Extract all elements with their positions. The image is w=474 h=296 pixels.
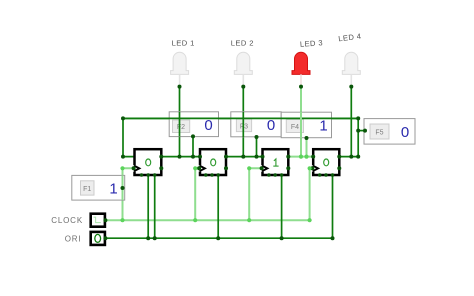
probe box F2 <box>169 112 218 137</box>
wire ORI rail (dark green, logic 0) <box>105 175 332 238</box>
svg-text:0: 0 <box>401 124 409 141</box>
node ORI rail junction FF2 <box>216 236 220 240</box>
redraw LED stems over boxes <box>179 112 181 137</box>
node FF2 en pin <box>204 173 208 177</box>
node LED3 wire top <box>299 85 303 89</box>
node F4 probe pin <box>305 136 309 140</box>
node FF4 en pin <box>318 173 322 177</box>
node FF3 reset pin <box>273 173 277 177</box>
wire stub to F5 probe <box>358 130 365 132</box>
node F5 stub corner <box>356 129 360 133</box>
flip-flop U2 (T flip-flop) <box>199 149 226 175</box>
svg-text:1: 1 <box>109 180 117 197</box>
wire FF1 preset to ORI rail <box>154 175 156 238</box>
LED 2 (off) <box>234 52 252 85</box>
svg-text:F1: F1 <box>83 186 91 193</box>
LED 3 (on, red) <box>292 52 310 85</box>
node FF2.T pin <box>198 155 202 159</box>
wire clock tap to FF3 <box>249 168 262 220</box>
node FF3 en pin <box>267 173 271 177</box>
svg-text:F4: F4 <box>291 124 299 131</box>
svg-text:CLOCK: CLOCK <box>51 216 83 225</box>
wire LED1 stem <box>179 87 181 157</box>
node clock tap FF1 <box>120 218 124 222</box>
redraw feedback wire over boxes <box>123 117 358 119</box>
node clock tap FF4 corner <box>308 218 312 222</box>
node F1 probe pin <box>121 186 125 190</box>
node F2 probe pin <box>191 134 195 138</box>
node clock tap FF3 <box>247 218 251 222</box>
wire stage1 FF1.Q to FF2.T <box>161 156 200 158</box>
node ORI rail junction FF3 <box>280 236 284 240</box>
node clock corner FF4 <box>308 166 312 170</box>
wire stage2 FF2.Q to FF3.T <box>226 156 263 158</box>
node F3 probe pin <box>255 135 259 139</box>
node FF4.Q pin <box>337 155 341 159</box>
node FF1.T junction <box>121 155 125 159</box>
node F4 stub junction <box>304 155 308 159</box>
node FF4 reset pin <box>324 173 328 177</box>
node FF4 clk pin <box>310 166 314 170</box>
redraw F1 tap over box <box>122 175 124 200</box>
junction dots light green <box>120 155 311 223</box>
node LED1 stem junction <box>178 155 182 159</box>
flip-flop U1 (T flip-flop) <box>133 149 161 175</box>
node F3 stub junction <box>255 155 259 159</box>
node FF2 Qbar pin <box>224 166 228 170</box>
node FF1 clk pin <box>132 166 136 170</box>
node feedback top-left corner <box>121 116 125 120</box>
node FF3.Q pin <box>286 155 290 159</box>
node FF4.T pin <box>311 155 315 159</box>
wire LED3 stem (light green) <box>300 87 302 157</box>
node ORI rail junction FF1 preset <box>153 236 157 240</box>
svg-text:LED 3: LED 3 <box>300 38 324 49</box>
wire feedback FF4.Q to FF1.T <box>123 118 358 156</box>
wire stage3 FF3.Q to FF4.T (light green, logic 1) <box>288 156 313 158</box>
node F2 stub junction <box>191 155 195 159</box>
node CLOCK output pin <box>103 218 107 222</box>
node FF3 Qbar pin <box>286 166 290 170</box>
node LED3 stem junction <box>299 155 303 159</box>
wire FF3 preset to ORI rail <box>281 175 283 238</box>
node FF4 Qbar pin <box>337 166 341 170</box>
svg-text:LED 2: LED 2 <box>231 39 254 48</box>
node clock corner FF1 <box>120 166 124 170</box>
svg-text:0: 0 <box>204 117 212 134</box>
node stage4 corner <box>356 155 360 159</box>
node LED4 stem junction <box>349 155 353 159</box>
probe box F3 <box>231 112 281 137</box>
node F5 probe pin <box>363 129 367 133</box>
svg-text:ORI: ORI <box>65 235 82 244</box>
wire stub to F2 probe <box>192 136 194 156</box>
probe box F1 <box>72 175 125 200</box>
node LED4 wire top <box>349 85 353 89</box>
svg-text:LED 1: LED 1 <box>172 39 195 48</box>
node FF3 preset pin <box>280 173 284 177</box>
node ORI rail junction FF1 reset <box>146 236 150 240</box>
node ORI rail corner <box>331 236 335 240</box>
flip-flop U3 (T flip-flop) <box>261 149 288 175</box>
svg-text:0: 0 <box>267 117 275 134</box>
wire clock tap to FF4 <box>310 168 314 220</box>
wire clock tap to FF1 <box>123 168 135 220</box>
node FF3.T pin <box>261 155 265 159</box>
node FF1.Q pin <box>159 155 163 159</box>
svg-text:F2: F2 <box>177 124 185 131</box>
node FF2 clk pin <box>197 166 201 170</box>
node LED2 wire top <box>241 85 245 89</box>
node FF1 reset pin <box>146 173 150 177</box>
wire CLOCK rail (light green, logic 1) <box>105 219 309 221</box>
node FF2 preset pin <box>216 173 220 177</box>
node FF1 en pin <box>140 173 144 177</box>
wire LED4 stem <box>350 87 352 157</box>
wire FF2 preset to ORI rail <box>217 175 219 238</box>
input CLOCK <box>91 214 105 227</box>
wire stub to F4 probe (light green) <box>306 138 308 157</box>
input ORI <box>91 232 105 245</box>
node LED2 stem junction <box>241 155 245 159</box>
node FF2.Q pin <box>224 155 228 159</box>
probe box F4 <box>281 112 331 138</box>
node FF3 clk pin <box>260 166 264 170</box>
wire FF1 reset to ORI rail <box>147 175 149 238</box>
node ORI output pin <box>103 236 107 240</box>
probe box F5 <box>364 119 415 145</box>
wire LED2 stem <box>242 87 244 157</box>
node FF4 preset pin <box>331 173 335 177</box>
svg-text:1: 1 <box>319 117 327 134</box>
node clock corner FF2 <box>193 166 197 170</box>
node LED1 wire top <box>178 85 182 89</box>
svg-text:F5: F5 <box>375 130 383 137</box>
wire clock tap to FF2 <box>195 168 200 220</box>
LED 4 (off) <box>342 52 360 85</box>
wire stub to F3 probe <box>256 137 258 157</box>
node clock tap FF2 <box>193 218 197 222</box>
flip-flop U4 (T flip-flop) <box>312 149 340 175</box>
node feedback top-right corner <box>356 116 360 120</box>
junction dots dark <box>103 85 367 241</box>
node FF2 reset pin <box>210 173 214 177</box>
node FF1 Qbar pin <box>159 166 163 170</box>
node clock corner FF3 <box>247 166 251 170</box>
node FF1 preset pin <box>153 173 157 177</box>
LED 1 (off) <box>171 52 189 85</box>
